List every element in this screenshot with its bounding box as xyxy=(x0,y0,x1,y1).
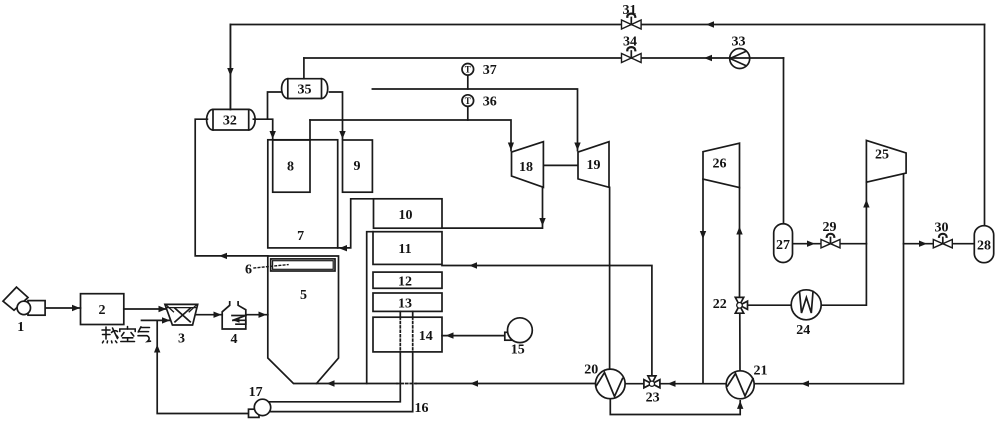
wire hot air into mill 3 xyxy=(142,319,171,321)
svg-text:2: 2 xyxy=(99,303,106,318)
valve 31 xyxy=(622,14,642,29)
svg-text:4: 4 xyxy=(231,332,238,347)
wire HX 21 to turbine 25 right leg xyxy=(755,173,904,384)
HX 24 xyxy=(791,290,821,320)
HX 20 xyxy=(596,369,626,399)
wire box 10 to box 7 bottom xyxy=(338,199,374,248)
svg-text:26: 26 xyxy=(713,157,727,172)
valve 22 xyxy=(735,297,743,305)
svg-text:17: 17 xyxy=(249,385,263,400)
svg-text:1: 1 xyxy=(17,320,24,335)
svg-text:37: 37 xyxy=(483,63,497,78)
turbine 19 xyxy=(578,142,609,188)
turbine 26 xyxy=(703,143,740,187)
svg-text:13: 13 xyxy=(398,297,412,312)
wire turbine 25 leg to valve 30 xyxy=(904,243,934,245)
wire capsule 35 left elbow xyxy=(268,92,282,119)
furnace 5 xyxy=(268,256,339,384)
HX 21 xyxy=(726,371,754,399)
vessel 27 xyxy=(774,224,793,263)
svg-text:23: 23 xyxy=(646,391,660,406)
gauge 36 xyxy=(462,95,474,107)
wire vessel 27 to valve 29 xyxy=(793,243,822,245)
leader dots for 6 xyxy=(254,265,288,268)
svg-text:24: 24 xyxy=(796,323,810,338)
vessel 32 xyxy=(207,109,256,130)
drum 6 xyxy=(271,259,335,271)
svg-text:34: 34 xyxy=(623,35,637,50)
box 13 xyxy=(373,293,442,311)
svg-text:7: 7 xyxy=(297,229,304,244)
wire hot air riser from fan 17 xyxy=(157,320,249,413)
wire 16 left duct from box 13 through box 14 to fan 17 xyxy=(399,311,401,317)
wire steam line y120 to turbine 18 xyxy=(310,120,511,151)
wire vessel 32 top stem xyxy=(229,25,231,110)
svg-text:15: 15 xyxy=(511,343,525,358)
wire bottom rail furnace to HX 20 xyxy=(317,383,398,385)
wire 16 right duct from box 13 through box 14 to fan 17 xyxy=(412,311,414,317)
wire turbine 19 exhaust down to HX 20 xyxy=(609,187,611,369)
wire box 8 right edge extension xyxy=(309,120,311,140)
wire valve 30 to vessel 28 xyxy=(952,243,974,245)
svg-text:29: 29 xyxy=(823,220,837,235)
wire turbine 26 left leg down to rail xyxy=(702,179,704,383)
gauge 37 xyxy=(462,64,474,76)
wire blower 15 into box 14 xyxy=(442,335,508,337)
svg-text:9: 9 xyxy=(354,159,361,174)
wire valve 23 to HX 21 xyxy=(660,383,727,385)
svg-text:11: 11 xyxy=(398,242,411,257)
wire valve 22 to HX 24 xyxy=(748,304,792,306)
svg-text:T: T xyxy=(465,96,471,106)
svg-text:27: 27 xyxy=(776,238,790,253)
svg-text:6: 6 xyxy=(245,263,252,278)
fan 17 xyxy=(249,409,260,417)
svg-text:30: 30 xyxy=(935,221,949,236)
svg-text:31: 31 xyxy=(623,3,637,18)
box 12 xyxy=(373,272,442,288)
box 10 xyxy=(374,199,443,228)
svg-text:12: 12 xyxy=(398,275,412,290)
box 11 xyxy=(373,232,442,265)
svg-text:22: 22 xyxy=(713,297,727,312)
capsule 35 xyxy=(282,79,328,99)
wire mill 3 to separator 4 xyxy=(196,314,223,316)
valve 34 xyxy=(622,47,642,62)
wire steam line y89 to turbine 19 xyxy=(372,89,577,151)
wire feeder 1 to box 2 xyxy=(45,307,80,309)
svg-text:36: 36 xyxy=(483,95,497,110)
svg-text:21: 21 xyxy=(754,364,768,379)
wire shaft turbine 18 to 19 xyxy=(543,164,578,166)
valve 23 xyxy=(644,380,652,388)
valve 29 xyxy=(821,234,840,248)
feeder 1 xyxy=(3,287,28,310)
wire separator 4 to furnace 5 xyxy=(246,314,268,316)
svg-text:10: 10 xyxy=(399,208,413,223)
svg-text:20: 20 xyxy=(584,363,598,378)
wire HX 24 up into turbine 25 xyxy=(821,182,866,305)
wire capsule 35 top stem xyxy=(303,58,305,79)
svg-text:18: 18 xyxy=(519,160,533,175)
wire U line HX 20 bottom to HX 21 bottom xyxy=(610,399,740,415)
mill 3 xyxy=(165,304,198,325)
blower 15 xyxy=(505,332,514,340)
box 8 xyxy=(273,140,310,192)
wire gauge 37 stem xyxy=(467,75,469,89)
svg-text:T: T xyxy=(465,65,471,75)
wire down to vessel 28 xyxy=(984,25,986,226)
wire HX 20 to valve 23 xyxy=(625,383,644,385)
wire box 2 to mill 3 coal xyxy=(124,308,167,310)
wire vessel 32 right to box 8 xyxy=(253,119,272,139)
turbine 18 xyxy=(512,142,544,188)
wire valve 23 up and left into box 11 xyxy=(442,266,652,376)
wire gauge 36 stem xyxy=(467,106,469,120)
svg-text:25: 25 xyxy=(875,148,889,163)
wire turbine 26 right leg to valve 22 xyxy=(739,188,741,298)
svg-text:19: 19 xyxy=(587,158,601,173)
svg-text:14: 14 xyxy=(419,329,433,344)
wire pump line to valve 34 xyxy=(304,57,622,59)
turbine 25 xyxy=(866,140,906,182)
wire box 11 top-left down to bottom rail xyxy=(367,232,373,384)
svg-text:8: 8 xyxy=(287,160,294,175)
svg-text:3: 3 xyxy=(178,332,185,347)
vessel 28 xyxy=(974,226,993,263)
label hot air (热空气) drawn strokes xyxy=(102,327,151,343)
wire valve 22 down to HX 21 xyxy=(739,313,741,371)
svg-text:5: 5 xyxy=(300,288,307,303)
svg-text:33: 33 xyxy=(732,35,746,50)
wire capsule 35 right elbow into box 9 xyxy=(330,92,343,139)
wire valve 29 to turbine 25 feed line xyxy=(840,243,866,245)
wire down to vessel 27 xyxy=(783,58,785,224)
box 7 xyxy=(268,140,338,248)
box 2 xyxy=(81,294,124,325)
wire top return line to valve 31 xyxy=(230,24,621,26)
valve 30 xyxy=(933,234,952,248)
box 14 xyxy=(373,317,442,352)
wire turbine 18 exhaust to box 10 xyxy=(442,187,543,228)
svg-text:32: 32 xyxy=(223,114,237,129)
svg-text:35: 35 xyxy=(298,83,312,98)
wire vessel 32 left loop from furnace top xyxy=(195,119,268,256)
separator 4 xyxy=(222,302,246,329)
wire down to vessel 32 xyxy=(229,25,231,110)
pump 33 xyxy=(730,49,750,69)
box 9 xyxy=(343,140,373,192)
svg-text:16: 16 xyxy=(415,401,429,416)
svg-text:28: 28 xyxy=(977,239,991,254)
